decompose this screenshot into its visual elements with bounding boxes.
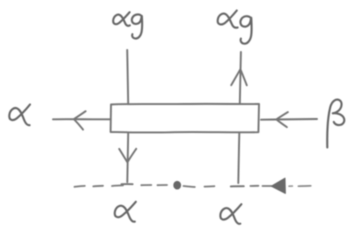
node dot on dashed line — [173, 181, 181, 190]
dashed line segment 2 — [93, 185, 103, 188]
dashed line tick under left vertical — [122, 183, 133, 185]
wire top-left vertical — [127, 50, 128, 104]
label alpha-g top-left : alpha part — [113, 12, 130, 26]
label alpha left external leg — [9, 105, 30, 126]
wire right horizontal beta line — [261, 118, 317, 121]
arrowhead on left line (pointing left) — [74, 111, 86, 129]
dashed line segment 7 — [205, 185, 215, 187]
arrowhead down on bottom-left vertical — [119, 149, 136, 163]
label beta right external leg — [327, 100, 344, 148]
arrowhead on right line (pointing left) — [276, 112, 288, 127]
label alpha-g top-right : alpha part — [218, 11, 238, 28]
label alpha bottom-left — [115, 202, 136, 222]
arrowhead up on top-right vertical — [231, 69, 247, 85]
dashed line segment 11 — [298, 185, 310, 187]
dashed line segment 10 — [289, 185, 292, 187]
wire bottom-left vertical — [126, 133, 129, 182]
dashed line tick under right vertical — [231, 185, 244, 187]
wire left horizontal alpha line — [53, 118, 110, 120]
label alpha-g top-left : g part — [132, 14, 142, 38]
filled triangle arrowhead on dashed line (pointing left) — [271, 178, 285, 193]
dashed line segment 3 — [112, 184, 123, 187]
dashed line segment 5 — [158, 184, 168, 186]
dashed line segment 1 — [75, 185, 85, 188]
dashed line segment 6 — [184, 186, 195, 187]
dashed line segment 9 (leads into triangle) — [263, 185, 272, 187]
dashed line segment 4 — [141, 184, 151, 186]
wire top-right vertical — [240, 52, 241, 104]
label alpha-g top-right : g part — [240, 16, 251, 44]
dashed line segment 8 — [250, 185, 258, 187]
label alpha bottom-right — [220, 204, 241, 224]
wire bottom-right vertical — [238, 133, 239, 183]
box (four-point interaction rectangle) — [111, 104, 259, 133]
